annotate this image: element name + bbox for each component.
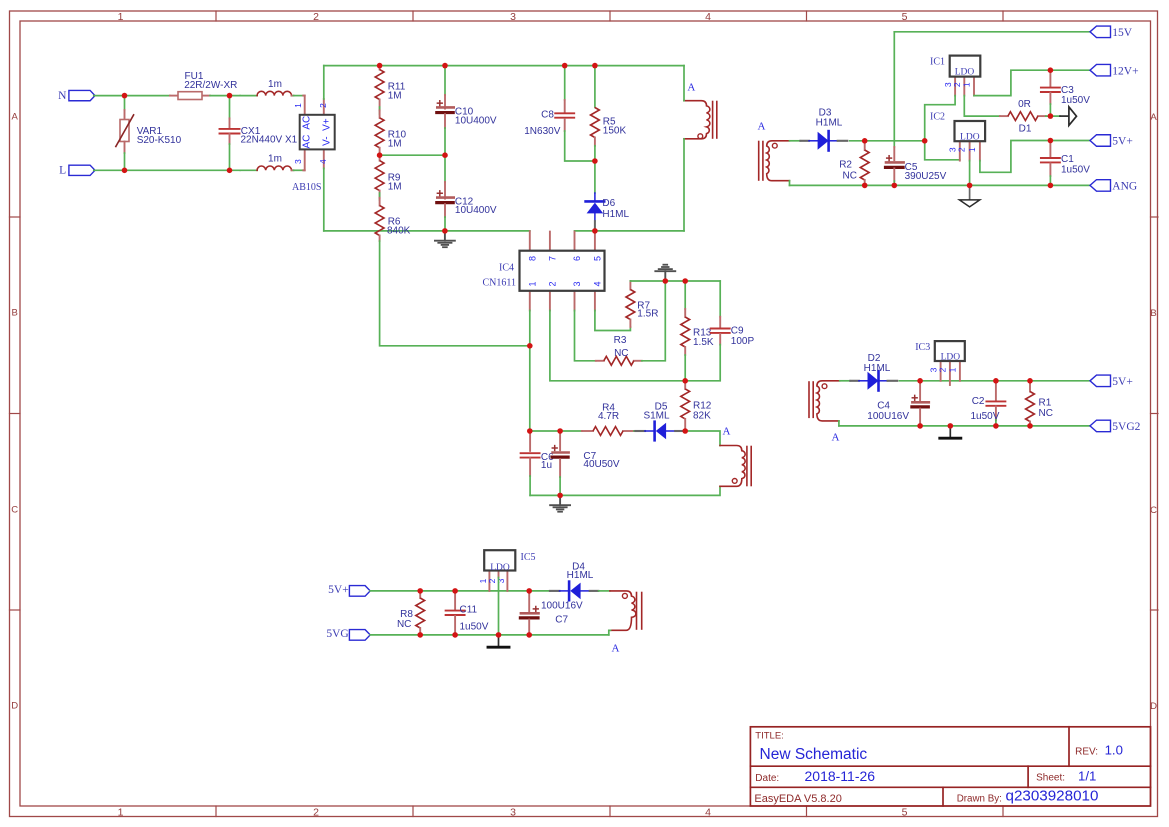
node junction C1 bottom xyxy=(1048,183,1054,189)
svg-text:1.5R: 1.5R xyxy=(637,309,658,320)
wire TR2 bottom to ANG rail xyxy=(789,181,791,186)
svg-text:A: A xyxy=(612,643,620,655)
svg-text:2: 2 xyxy=(547,281,557,286)
node junction R1 bottom xyxy=(1027,423,1033,429)
svg-text:3: 3 xyxy=(510,806,516,818)
regulator IC3 xyxy=(915,341,965,385)
svg-text:Date:: Date: xyxy=(755,773,779,784)
wire ANG rail xyxy=(790,184,1091,186)
svg-text:7: 7 xyxy=(547,256,557,261)
transformer TR5 aux xyxy=(610,591,642,630)
wire AB10S pin2 up to top rail xyxy=(323,66,325,99)
frame column tick xyxy=(215,11,217,21)
svg-text:15V: 15V xyxy=(1112,27,1133,39)
node junction pin2 gnd xyxy=(496,632,502,638)
svg-text:1M: 1M xyxy=(388,182,402,193)
resistor R4 xyxy=(582,402,634,435)
regulator IC1 xyxy=(930,56,980,96)
wire R11-R10 xyxy=(379,107,381,114)
svg-text:D: D xyxy=(11,701,18,712)
node junction C7 top xyxy=(557,428,563,434)
svg-text:390U25V: 390U25V xyxy=(905,171,947,182)
node junction R5/C8/D6 xyxy=(592,158,598,164)
fuse FU1 xyxy=(170,71,237,100)
title block Sheet column divider xyxy=(1027,766,1029,787)
svg-text:D6: D6 xyxy=(602,198,615,209)
wire bottom rail V- left xyxy=(324,230,530,232)
svg-text:1: 1 xyxy=(962,82,972,87)
resistor R13 xyxy=(681,281,714,381)
svg-text:1: 1 xyxy=(118,11,124,23)
wire 0R node to gnd triangle xyxy=(1046,115,1060,117)
svg-text:4: 4 xyxy=(705,806,711,818)
node junction R13 top xyxy=(682,278,688,284)
svg-text:5VG: 5VG xyxy=(326,628,348,640)
wire D2 to 5V+ rail xyxy=(899,380,1090,382)
node junction IC4 pin1 / left wire xyxy=(527,343,533,349)
svg-text:10U400V: 10U400V xyxy=(455,205,497,216)
svg-text:10U400V: 10U400V xyxy=(455,115,497,126)
svg-text:0R: 0R xyxy=(1018,99,1031,110)
regulator IC5 xyxy=(478,550,536,591)
resistor R1 xyxy=(1026,381,1053,426)
wire TR1 bottom to rail xyxy=(683,139,685,231)
title block row divider 2 xyxy=(750,786,1150,788)
svg-text:4: 4 xyxy=(318,159,328,164)
port L xyxy=(59,165,95,177)
regulator IC2 xyxy=(930,111,985,160)
capacitor C7 40U50V xyxy=(552,431,620,495)
svg-text:1: 1 xyxy=(527,281,537,286)
svg-text:1m: 1m xyxy=(268,154,282,165)
svg-text:NC: NC xyxy=(397,619,411,630)
capacitor CX1 xyxy=(220,96,298,171)
wire top rail V+ xyxy=(324,65,684,67)
node junction C4 top xyxy=(917,378,923,384)
wire IC1 pin2 to 0R xyxy=(964,96,1000,117)
svg-text:1/1: 1/1 xyxy=(1078,769,1096,784)
wire D5 node to TR4 xyxy=(685,431,720,446)
wire N to FU1 xyxy=(94,95,170,97)
ground earth below C7 xyxy=(550,495,570,511)
diode D3 xyxy=(800,107,847,150)
ground bar below IC3 xyxy=(940,426,961,438)
svg-text:1: 1 xyxy=(948,367,958,372)
wire TR5 bottom step xyxy=(609,630,611,635)
svg-text:2: 2 xyxy=(952,82,962,87)
resistor R11 xyxy=(375,66,406,111)
node junction rail431 left xyxy=(527,428,533,434)
node junction D6 / IC4 pin5 xyxy=(592,228,598,234)
wire IC2 pin1 to 5V+ xyxy=(980,141,1091,173)
wire TR3 top to D2 xyxy=(840,380,851,382)
rectifier module AB10S xyxy=(292,96,335,194)
node junction N-VAR1 xyxy=(122,93,128,99)
resistor R6 xyxy=(375,198,410,241)
node junction R5 top xyxy=(592,63,598,69)
frame column tick xyxy=(412,11,414,21)
svg-text:5: 5 xyxy=(592,256,602,261)
capacitor C7 100U16V xyxy=(520,591,583,635)
svg-text:C1: C1 xyxy=(1061,154,1074,165)
capacitor C11 xyxy=(446,591,489,635)
diode D2 xyxy=(850,353,897,391)
port ANG xyxy=(1090,180,1137,193)
ground bar below IC5 xyxy=(488,635,509,647)
svg-text:H1ML: H1ML xyxy=(602,209,629,220)
svg-text:ANG: ANG xyxy=(1112,181,1137,193)
node junction R10/R9 xyxy=(377,152,383,158)
svg-text:82K: 82K xyxy=(693,410,711,421)
svg-text:S1ML: S1ML xyxy=(643,410,670,421)
svg-text:2: 2 xyxy=(938,367,948,372)
svg-text:5V+: 5V+ xyxy=(1112,136,1133,148)
svg-text:H1ML: H1ML xyxy=(864,363,891,374)
wire D3 to rail xyxy=(850,140,925,142)
svg-text:3: 3 xyxy=(572,281,582,286)
node junction R2 bottom xyxy=(862,183,868,189)
svg-text:LDO: LDO xyxy=(490,563,510,573)
svg-text:1.5K: 1.5K xyxy=(693,337,714,348)
diode D4 xyxy=(550,561,598,600)
wire IC4 pin3 to R3 xyxy=(575,311,596,361)
node junction C10 top xyxy=(442,63,448,69)
svg-text:CN1611: CN1611 xyxy=(482,277,516,288)
wire AB10S pin4 down xyxy=(323,168,325,231)
node junction CX1 bottom xyxy=(227,168,233,174)
svg-text:1N630V: 1N630V xyxy=(524,126,560,137)
port 15V xyxy=(1090,26,1133,39)
wire TR2 top to D3 xyxy=(790,140,801,142)
svg-text:1u50V: 1u50V xyxy=(1061,165,1090,176)
svg-text:1m: 1m xyxy=(268,79,282,90)
resistor R3 xyxy=(596,335,642,365)
svg-text:q2303928010: q2303928010 xyxy=(1006,788,1099,805)
node junction R8 bottom xyxy=(417,632,423,638)
svg-text:1: 1 xyxy=(118,806,124,818)
svg-text:IC4: IC4 xyxy=(499,262,514,273)
svg-text:1: 1 xyxy=(293,103,303,108)
node junction C7 bottom / ground xyxy=(557,493,563,499)
svg-text:3: 3 xyxy=(496,578,506,583)
svg-text:2: 2 xyxy=(313,11,319,23)
svg-text:1u: 1u xyxy=(541,460,552,471)
svg-text:IC2: IC2 xyxy=(930,111,945,122)
wire L rail xyxy=(94,169,240,171)
node junction C2 bottom xyxy=(993,423,999,429)
node junction C4 bottom xyxy=(917,423,923,429)
svg-text:5V+: 5V+ xyxy=(328,584,349,596)
frame row tick xyxy=(10,216,21,218)
wire bottom return rail xyxy=(530,486,720,495)
capacitor C2 xyxy=(971,381,1006,426)
svg-text:4: 4 xyxy=(592,281,602,286)
svg-text:1.0: 1.0 xyxy=(1105,743,1123,758)
wire IC2 pin2 to ANG rail xyxy=(969,161,971,186)
frame row tick xyxy=(10,413,21,415)
node junction C2 top xyxy=(993,378,999,384)
node junction L-VAR1 xyxy=(122,168,128,174)
svg-text:Drawn By:: Drawn By: xyxy=(957,794,1002,805)
svg-text:A: A xyxy=(758,121,766,133)
svg-text:2: 2 xyxy=(318,103,328,108)
svg-text:R3: R3 xyxy=(614,335,627,346)
wire node to D6 xyxy=(594,161,596,193)
resistor R2 xyxy=(839,141,869,186)
node junction C5 bottom xyxy=(892,183,898,189)
port 5VG2 xyxy=(1090,420,1141,433)
capacitor C9 xyxy=(685,281,754,381)
title block row divider 1 xyxy=(750,765,1150,767)
node junction C7b top xyxy=(526,588,532,594)
svg-text:AB10S: AB10S xyxy=(292,182,321,193)
wire IC1 pin3 to rail to IC2 pin3 xyxy=(925,96,960,160)
wire gnd rail above R7 xyxy=(630,280,720,282)
node junction C3 top xyxy=(1048,67,1054,73)
ground earth above R3 xyxy=(655,265,675,281)
svg-text:2: 2 xyxy=(957,147,967,152)
svg-text:H1ML: H1ML xyxy=(816,117,843,128)
svg-text:NC: NC xyxy=(1039,408,1053,419)
capacitor C6 xyxy=(521,431,555,495)
inductor L1 1m top xyxy=(240,79,305,96)
svg-text:REV:: REV: xyxy=(1075,746,1098,757)
wire 5V+ rail bottom section xyxy=(370,590,529,592)
IC controller IC4 CN1611 xyxy=(482,231,604,311)
svg-text:840K: 840K xyxy=(387,225,411,236)
svg-text:B: B xyxy=(12,308,18,319)
frame column tick xyxy=(806,11,808,21)
svg-text:A: A xyxy=(832,431,840,443)
svg-text:C8: C8 xyxy=(541,110,554,121)
node junction C11 top xyxy=(452,588,458,594)
node junction R2 top xyxy=(862,138,868,144)
transformer TR3 secondary xyxy=(809,381,840,421)
svg-text:H1ML: H1ML xyxy=(567,570,594,581)
resistor R8 xyxy=(397,591,425,635)
svg-text:4: 4 xyxy=(705,11,711,23)
capacitor C8 xyxy=(524,66,574,138)
wire IC1 pin1 to 12V+ xyxy=(974,70,1091,95)
svg-text:150K: 150K xyxy=(603,126,627,137)
capacitor C10 xyxy=(437,66,497,156)
inductor L2 1m bottom xyxy=(240,154,305,171)
node junction ground 5VG2 xyxy=(948,423,954,429)
port 5V+ top xyxy=(1090,135,1133,148)
svg-text:1: 1 xyxy=(967,147,977,152)
resistor R12 xyxy=(681,381,712,431)
wire IC4 pin1 down xyxy=(529,311,531,432)
svg-text:5VG2: 5VG2 xyxy=(1112,421,1140,433)
capacitor C12 xyxy=(437,155,497,231)
transformer TR1 primary xyxy=(684,101,717,139)
svg-text:5: 5 xyxy=(902,11,908,23)
svg-text:C7: C7 xyxy=(555,614,568,625)
svg-text:1u50V: 1u50V xyxy=(1061,95,1090,106)
svg-text:100P: 100P xyxy=(731,336,755,347)
ground earth at C12 xyxy=(435,231,455,247)
wire 15V output xyxy=(894,31,1090,33)
svg-text:LDO: LDO xyxy=(960,132,980,142)
svg-text:NC: NC xyxy=(614,348,628,359)
node junction D5 / R12 xyxy=(682,428,688,434)
svg-text:1M: 1M xyxy=(388,139,402,150)
wire TR3 bottom to 5VG2 rail xyxy=(838,421,840,426)
port 5VG xyxy=(326,628,370,640)
svg-text:1u50V: 1u50V xyxy=(971,411,1000,422)
port 12V+ xyxy=(1090,64,1139,77)
svg-text:S20-K510: S20-K510 xyxy=(137,135,182,146)
svg-text:TITLE:: TITLE: xyxy=(755,730,784,741)
diode D6 xyxy=(586,193,630,231)
svg-text:IC1: IC1 xyxy=(930,56,945,67)
resistor D1 0R xyxy=(1000,99,1046,134)
wire 5VG2 rail xyxy=(839,425,1091,427)
frame row tick xyxy=(10,609,21,611)
wire IC4 pin4 to R7 xyxy=(595,311,631,331)
resistor R10 xyxy=(375,110,406,155)
capacitor C1 xyxy=(1041,141,1090,186)
wire C8 bottom to R5 node xyxy=(565,131,595,161)
svg-text:R1: R1 xyxy=(1039,398,1052,409)
node junction C12 bottom / ground xyxy=(442,228,448,234)
node junction R13 bottom / R12 top xyxy=(682,378,688,384)
varistor VAR1 xyxy=(116,96,182,171)
svg-text:LDO: LDO xyxy=(955,68,975,78)
node junction C7b bottom xyxy=(526,632,532,638)
svg-text:A: A xyxy=(687,82,695,94)
transformer TR4 aux winding xyxy=(720,446,751,487)
svg-text:2018-11-26: 2018-11-26 xyxy=(805,768,876,784)
capacitor C5 xyxy=(886,32,947,186)
svg-text:12V+: 12V+ xyxy=(1112,65,1138,77)
port 5V+ bottom left xyxy=(328,584,370,596)
svg-text:LDO: LDO xyxy=(941,352,961,362)
svg-text:1M: 1M xyxy=(388,90,402,101)
diode D5 xyxy=(635,401,683,440)
wire top rail down to TR1 xyxy=(683,66,685,101)
svg-text:40U50V: 40U50V xyxy=(583,459,619,470)
node junction R8 top xyxy=(417,588,423,594)
svg-text:EasyEDA V5.8.20: EasyEDA V5.8.20 xyxy=(754,793,841,805)
node junction rail / IC pin3 feed xyxy=(922,138,928,144)
node junction R1 top xyxy=(1027,378,1033,384)
node junction C12 top xyxy=(442,152,448,158)
wire IC4 pin2 to R13 bottom node xyxy=(550,311,685,381)
node junction C11 bottom xyxy=(452,632,458,638)
svg-text:4.7R: 4.7R xyxy=(598,411,619,422)
svg-text:D: D xyxy=(1150,701,1157,712)
port N xyxy=(58,90,95,102)
svg-text:C11: C11 xyxy=(460,604,478,615)
node junction gnd rail / R3 xyxy=(663,278,669,284)
svg-text:AC AC: AC AC xyxy=(302,116,313,149)
svg-text:1u50V: 1u50V xyxy=(460,621,489,632)
wire IC5 pin2 to 5VG rail xyxy=(498,578,500,635)
node junction CX1 top xyxy=(227,93,233,99)
svg-text:C: C xyxy=(1150,505,1157,516)
node junction C1 top xyxy=(1048,138,1054,144)
svg-text:D1: D1 xyxy=(1019,123,1032,134)
wire C7b to D4 xyxy=(529,590,550,592)
port 5V+ mid xyxy=(1090,375,1133,388)
wire D4 to TR5 xyxy=(599,590,610,592)
wire 5VG rail xyxy=(370,634,609,636)
resistor R7 xyxy=(626,281,658,327)
resistor R9 xyxy=(375,155,401,198)
svg-text:6: 6 xyxy=(572,256,582,261)
svg-text:A: A xyxy=(12,112,19,123)
wire mid node to C12 xyxy=(380,154,445,156)
svg-text:New Schematic: New Schematic xyxy=(760,746,868,763)
svg-text:100U16V: 100U16V xyxy=(867,411,909,422)
svg-text:5V+: 5V+ xyxy=(1112,376,1133,388)
title block DrawnBy column divider xyxy=(942,787,944,806)
svg-text:22N440V X1: 22N440V X1 xyxy=(241,134,298,145)
svg-text:5: 5 xyxy=(902,806,908,818)
svg-text:3: 3 xyxy=(293,159,303,164)
capacitor C4 xyxy=(867,381,929,426)
svg-text:N: N xyxy=(58,90,67,102)
svg-text:V- V+: V- V+ xyxy=(322,118,333,146)
wire R9-R6 xyxy=(379,193,381,200)
wire low rail C6-R4 xyxy=(530,430,582,432)
svg-text:IC5: IC5 xyxy=(521,552,536,563)
wire bottom rail right segment xyxy=(575,230,685,232)
node junction 0R / C3 bottom xyxy=(1048,113,1054,119)
svg-text:Sheet:: Sheet: xyxy=(1036,772,1065,783)
svg-text:3: 3 xyxy=(510,11,516,23)
node junction gnd ANG xyxy=(967,183,973,189)
svg-text:A: A xyxy=(723,426,731,438)
svg-text:B: B xyxy=(1150,308,1156,319)
svg-text:C: C xyxy=(11,505,18,516)
svg-text:NC: NC xyxy=(843,171,857,182)
wire R3 right up to gnd rail xyxy=(642,281,666,361)
svg-text:L: L xyxy=(59,165,66,177)
svg-text:C2: C2 xyxy=(972,396,985,407)
title block border xyxy=(750,727,1150,806)
wire R6 bottom to IC4 pin1 xyxy=(380,241,530,346)
svg-text:R2: R2 xyxy=(839,160,852,171)
resistor R5 xyxy=(591,66,627,161)
ground triangle right at D1 xyxy=(1060,115,1069,117)
title block REV column divider xyxy=(1068,727,1070,766)
node junction R11 top xyxy=(377,63,383,69)
frame column tick xyxy=(1002,11,1004,21)
transformer TR2 secondary xyxy=(759,141,790,181)
svg-text:IC3: IC3 xyxy=(915,342,930,353)
capacitor C3 xyxy=(1041,70,1090,116)
svg-text:C9: C9 xyxy=(731,325,744,336)
svg-text:100U16V: 100U16V xyxy=(541,601,583,612)
wire FU1 to L1 xyxy=(210,95,240,97)
node junction C8 top xyxy=(562,63,568,69)
svg-text:2: 2 xyxy=(313,806,319,818)
svg-text:8: 8 xyxy=(527,256,537,261)
frame column tick xyxy=(609,11,611,21)
ground triangle below ANG rail xyxy=(959,185,979,207)
svg-text:A: A xyxy=(1150,112,1157,123)
wire R4 to D5 xyxy=(634,430,635,432)
svg-text:22R/2W-XR: 22R/2W-XR xyxy=(184,80,237,91)
